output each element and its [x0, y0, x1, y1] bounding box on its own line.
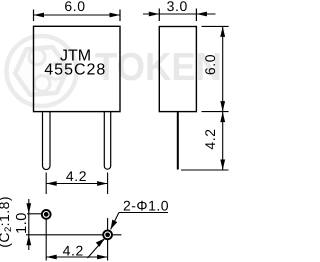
- side view: lead: [177, 112, 179, 170]
- footprint: left pad vertical line: [45, 219, 47, 260]
- svg-text:6.0: 6.0: [202, 54, 218, 75]
- side view: height dim bottom extension line (body bottom): [202, 111, 229, 113]
- side view: dim 3.0 left extension line: [158, 9, 160, 22]
- watermark logo circle: [7, 36, 77, 106]
- front view: lead pitch right extension line: [107, 173, 109, 195]
- front view: dim 6.0 right extension line: [119, 10, 121, 22]
- footprint: hole label underline: [119, 212, 168, 214]
- front view: lead pitch right arrowhead: [97, 181, 108, 186]
- front view: lead pitch dimension line: [46, 183, 107, 185]
- watermark hole ring 1: [29, 49, 45, 65]
- side view: height 6.0 dimension line: [222, 26, 224, 111]
- footprint: offset dim bottom arrowhead (pointing up): [26, 235, 31, 246]
- svg-text:1.0: 1.0: [14, 212, 30, 234]
- svg-text:6.0: 6.0: [64, 0, 85, 14]
- front view: dim 6.0 left extension line: [33, 10, 35, 22]
- side view: dim 3.0 left arrowhead (outside, pointing right): [149, 12, 160, 17]
- footprint: pitch right arrowhead: [97, 255, 108, 260]
- side view: body outline: [159, 27, 196, 112]
- watermark hole ring 2: [48, 63, 64, 79]
- side view: lead length bottom arrowhead: [220, 160, 225, 171]
- svg-text:455C28: 455C28: [44, 62, 106, 79]
- footprint: pitch dimension line: [46, 256, 107, 258]
- front view: lead pitch left extension line: [45, 173, 47, 195]
- footprint: offset dim top arrowhead (pointing down): [26, 203, 31, 214]
- side view: height 6.0 top arrowhead: [220, 26, 225, 37]
- side view: height 6.0 bottom arrowhead: [220, 101, 225, 112]
- side view: lead length top arrowhead: [220, 112, 225, 123]
- svg-text:4.2: 4.2: [202, 128, 218, 149]
- watermark hexagon nut: [15, 47, 68, 95]
- footprint: pitch leader line to right pad: [88, 238, 105, 258]
- front view: dim 6.0 dimension line: [34, 14, 121, 16]
- svg-text:3.0: 3.0: [167, 0, 188, 14]
- footprint: pitch leader arrowhead: [96, 238, 105, 246]
- footprint: right pad center dot: [105, 232, 110, 237]
- front view: dim 6.0 right arrowhead: [110, 13, 121, 18]
- footprint: left pad center dot: [44, 212, 49, 217]
- svg-text:4.2: 4.2: [66, 168, 87, 184]
- svg-text:2-Φ1.0: 2-Φ1.0: [123, 198, 169, 214]
- side view: lead length 4.2 dimension line: [222, 112, 224, 170]
- footprint: left pad outer circle: [42, 210, 51, 219]
- side view: height dim top extension line: [202, 25, 229, 27]
- watermark hole ring 3: [34, 76, 50, 92]
- footprint: right pad vertical line: [107, 218, 109, 261]
- side view: dim 3.0 right arrowhead (outside, pointing left): [196, 12, 207, 17]
- footprint: offset dim vertical line: [28, 199, 30, 250]
- front view: dim 6.0 left arrowhead: [34, 13, 45, 18]
- front view: lead pitch left arrowhead: [46, 181, 57, 186]
- side view: dim 3.0 right extension line: [195, 9, 197, 22]
- front view: body outline: [34, 26, 121, 111]
- svg-text:(C2:1.8): (C2:1.8): [0, 196, 14, 248]
- footprint: right pad level line: [26, 234, 121, 236]
- front view: right lead outline: [104, 112, 110, 169]
- footprint: left pad extension line: [27, 213, 43, 215]
- front view: left lead outline: [43, 112, 51, 170]
- side view: lead length bottom extension line: [181, 169, 229, 171]
- footprint: pitch left arrowhead: [46, 255, 57, 260]
- footprint: hole label leader arrowhead: [111, 220, 118, 230]
- svg-text:4.2: 4.2: [63, 243, 84, 259]
- footprint: hole label leader line: [111, 213, 119, 230]
- side view: dim 3.0 dimension line: [143, 13, 216, 15]
- footprint: right pad outer circle: [103, 230, 112, 239]
